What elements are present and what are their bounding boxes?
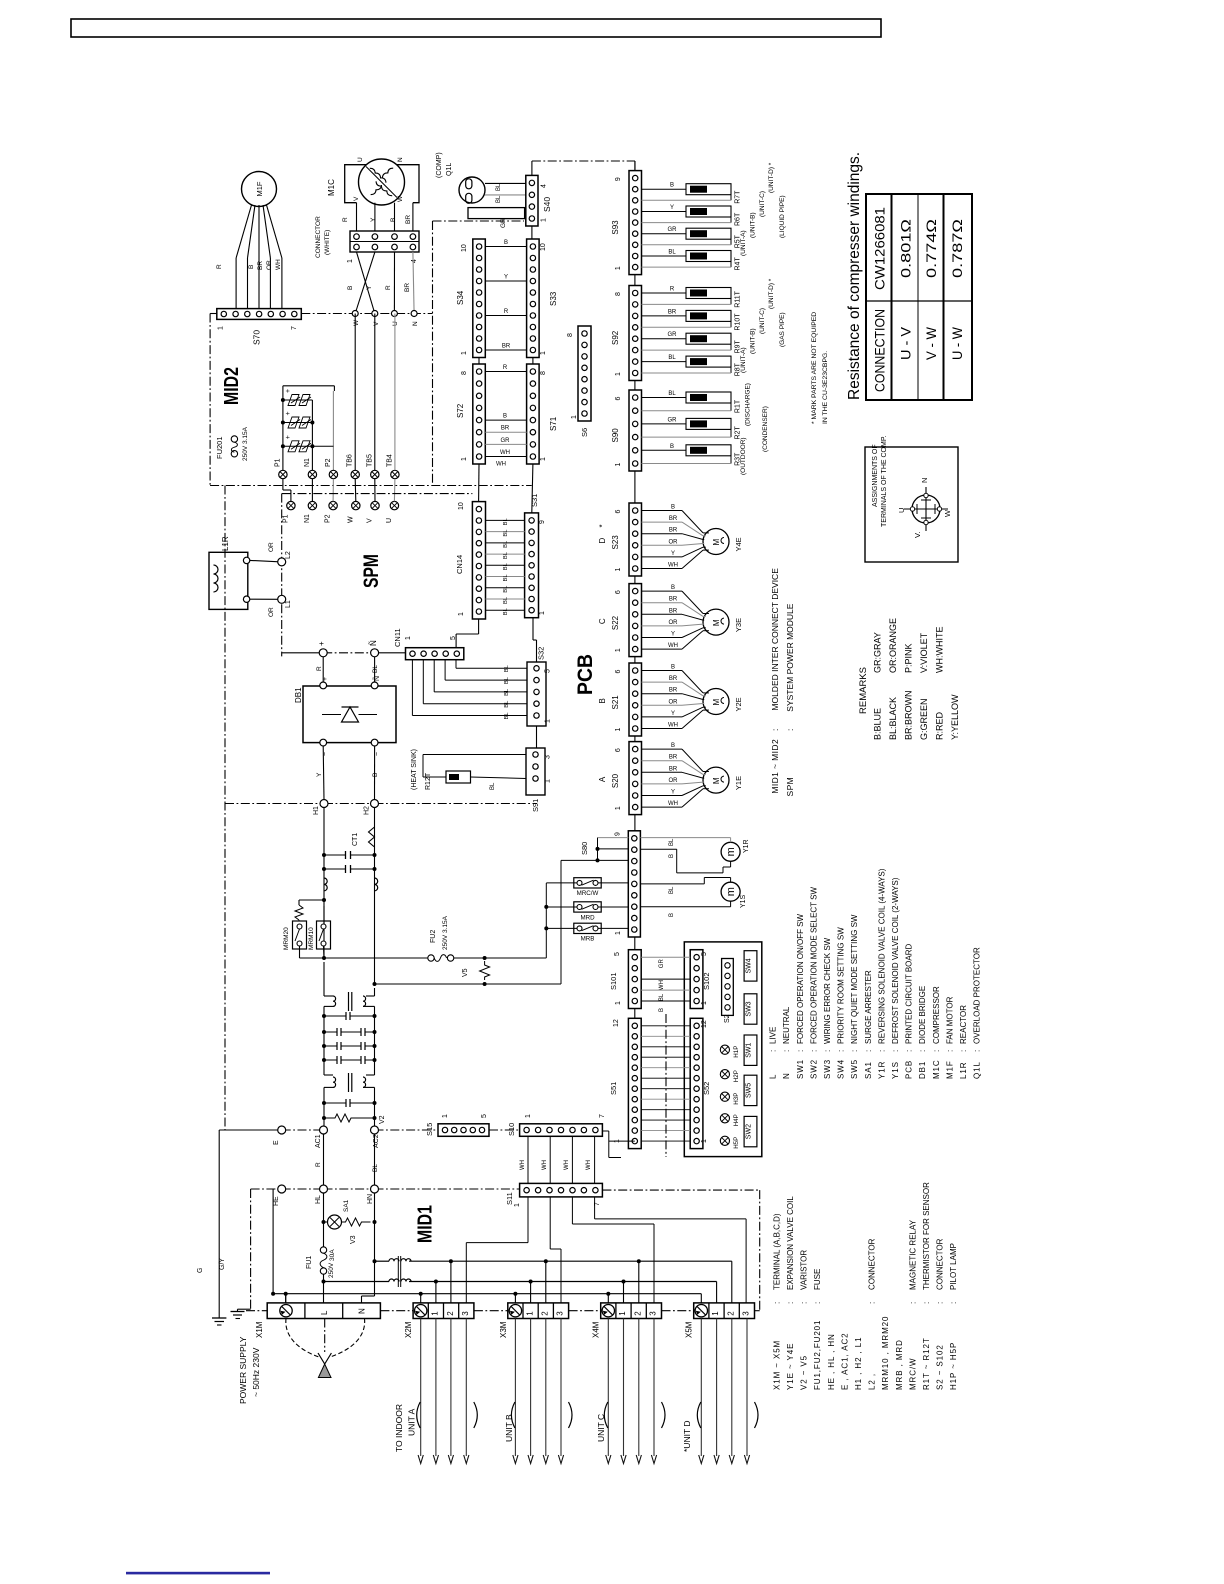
svg-text:(UNIT-B): (UNIT-B) [750,328,757,354]
connector S33 [527,239,540,358]
svg-text:R1T ~ R12T: R1T ~ R12T [922,1337,931,1390]
svg-text:1: 1 [514,1203,521,1207]
drops to indoor unit D [700,1319,702,1457]
svg-text:(UNIT-D) *: (UNIT-D) * [768,278,775,309]
svg-text:OR: OR [669,620,679,626]
crossover wires connector to bus [357,252,375,314]
svg-text:OR: OR [266,260,273,270]
svg-text:BL: BL [503,585,509,593]
svg-text:10: 10 [540,243,547,251]
svg-text:S10: S10 [507,1123,516,1136]
svg-text:A: A [598,776,607,782]
svg-text:L1R: L1R [959,1062,968,1079]
drops to indoor unit A [420,1319,422,1457]
svg-text:S92: S92 [611,330,620,345]
svg-text:H1 , H2 , L1: H1 , H2 , L1 [854,1337,863,1391]
svg-text:3: 3 [649,1311,658,1316]
svg-text:N: N [412,321,419,326]
svg-text:Y1R: Y1R [743,839,750,853]
svg-text::: : [786,1302,795,1304]
svg-text:(OUTDOOR): (OUTDOOR) [740,437,747,475]
svg-text:HL: HL [315,1195,322,1204]
svg-text:Y1E ~ Y4E: Y1E ~ Y4E [786,1343,795,1390]
svg-text:BR: BR [669,766,678,772]
svg-text:N: N [397,157,404,162]
svg-text:WH: WH [496,462,506,468]
svg-text:~ 50Hz 230V: ~ 50Hz 230V [251,1347,261,1397]
svg-text:BL: BL [503,551,509,559]
svg-text:EXPANSION VALVE COIL: EXPANSION VALVE COIL [786,1196,795,1290]
svg-text:ASSIGNMENTS OF: ASSIGNMENTS OF [872,444,879,507]
svg-text:+: + [285,389,292,393]
svg-text:1: 1 [711,1311,720,1316]
resistance table [866,194,972,400]
svg-text:WH: WH [659,980,665,990]
svg-text:BL: BL [669,886,675,894]
svg-text:U - V: U - V [899,327,914,360]
svg-text:Y: Y [504,275,508,281]
control PCB box [684,942,762,1157]
svg-text:R7T: R7T [735,190,742,204]
sensor chain wires [634,161,636,171]
svg-text:1: 1 [615,728,622,732]
svg-text:U: U [897,508,906,513]
power supply cable + arrow [286,1319,319,1358]
svg-text:1: 1 [458,612,465,616]
interconnect wires across boundary [282,479,284,490]
svg-text:BL: BL [504,664,510,672]
svg-text:BL: BL [496,183,502,191]
svg-text:Y: Y [671,551,675,557]
svg-text::: : [959,1050,968,1052]
ground symbol 1 [212,1317,226,1319]
bus junction nodes W V U N [352,311,358,317]
wires M1F to S70 [236,205,251,258]
svg-text:WH: WH [275,259,282,270]
svg-text:BL: BL [504,688,510,696]
svg-text::: : [949,1302,958,1304]
svg-text:U: U [392,321,399,326]
X1M feeder wires [285,1294,287,1303]
svg-text:BR: BR [669,597,678,603]
svg-text:30A: 30A [329,1249,336,1261]
pilot lamps H1P-H5P [720,1045,729,1054]
svg-text:Y: Y [671,632,675,638]
svg-text:1: 1 [540,351,547,355]
svg-text:B: B [503,414,507,420]
svg-text:OR: OR [669,539,679,545]
svg-text:V3: V3 [350,1235,357,1244]
svg-text:W: W [397,195,404,202]
svg-text:E: E [273,1140,280,1145]
svg-text:Q1L: Q1L [446,163,453,176]
svg-text:TERMINALS OF THE COMP.: TERMINALS OF THE COMP. [881,435,888,527]
svg-text:WH:WHITE: WH:WHITE [934,627,944,674]
svg-text:SW5: SW5 [746,1083,753,1098]
vertical mains wires below H1 H2 [323,808,325,959]
svg-text:B: B [659,1008,665,1012]
svg-text:M: M [712,777,721,784]
svg-text:1: 1 [431,1311,440,1316]
connector S32 [527,662,546,726]
svg-text:MID2: MID2 [221,367,243,405]
svg-text:OR: OR [268,607,275,617]
svg-text:Resistance of compresser windi: Resistance of compresser windings. [846,152,863,400]
svg-text:1: 1 [540,457,547,461]
svg-text:UNIT A: UNIT A [407,1408,417,1436]
svg-text:1: 1 [618,1311,627,1316]
compass terminal diagram [912,495,940,523]
svg-text:FU201: FU201 [215,436,224,459]
PCB left boundary vertical [224,486,226,1131]
wires S72-S71 [485,371,526,373]
svg-text:SW1: SW1 [746,1043,753,1058]
svg-text:R1T: R1T [735,399,742,413]
svg-text:5: 5 [614,952,621,956]
svg-text:BL: BL [668,250,676,256]
svg-text:MRB , MRD: MRB , MRD [895,1339,904,1390]
svg-text:BL: BL [669,838,675,846]
svg-text:BR: BR [502,344,511,350]
svg-text::: : [782,1050,791,1052]
svg-text:B: B [504,240,508,246]
svg-text:1: 1 [615,1001,622,1005]
svg-text:(GAS PIPE): (GAS PIPE) [779,312,786,347]
svg-text::: : [769,1050,778,1052]
svg-text:1: 1 [539,611,546,615]
svg-text:B: B [671,505,675,511]
fan connector S20 + motor Y1E [629,742,642,815]
svg-text:MID1: MID1 [415,1205,437,1243]
common mode choke lower [324,1074,333,1076]
svg-text:BL: BL [490,782,496,790]
svg-text:H2: H2 [364,806,371,815]
svg-text:WH: WH [542,1160,548,1170]
svg-text:FUSE: FUSE [813,1269,822,1290]
svg-text:B: B [670,444,674,450]
svg-text:BL: BL [659,993,665,1001]
svg-text:WH: WH [520,1160,526,1170]
svg-text:B: B [248,265,255,269]
dash-dot to ground 2 [250,1189,252,1309]
svg-text:P:PINK: P:PINK [903,643,913,673]
svg-text:5: 5 [701,952,708,956]
svg-text:PRINTED CIRCUIT BOARD: PRINTED CIRCUIT BOARD [905,943,914,1044]
svg-text:R:RED: R:RED [934,711,944,740]
svg-text:+: + [285,435,292,439]
svg-text:BL: BL [503,562,509,570]
svg-text:L: L [769,1074,778,1079]
svg-text:3: 3 [742,1311,751,1316]
svg-text:6: 6 [615,748,622,752]
svg-text:SW3: SW3 [823,1059,832,1079]
connector S71 [527,364,540,464]
svg-text:1: 1 [545,779,552,783]
svg-text:3: 3 [461,1311,470,1316]
svg-text:0.774Ω: 0.774Ω [924,219,939,278]
svg-text:UNIT C: UNIT C [596,1414,606,1442]
svg-text:1: 1 [615,568,622,572]
svg-text:250V: 250V [328,1262,335,1278]
svg-text:2: 2 [633,1311,642,1316]
svg-text:NIGHT QUIET MODE SETTING SW: NIGHT QUIET MODE SETTING SW [850,914,859,1044]
svg-text:1: 1 [701,1001,708,1005]
connector S90 with thermistors R1T-R3T [629,390,642,471]
svg-text:1: 1 [525,1114,532,1118]
connector CN14 [472,502,485,619]
wires Q1L to S40 [485,182,526,184]
svg-text::: : [785,729,795,731]
svg-text:S71: S71 [549,416,558,431]
svg-text:V:VIOLET: V:VIOLET [919,632,929,673]
svg-text:N: N [920,478,929,483]
svg-text:BR: BR [668,309,677,315]
svg-text:S52: S52 [702,1082,711,1095]
PCB boundary dashed vertical [665,1014,667,1157]
svg-text:H2P: H2P [733,1070,740,1082]
svg-text:PRIORITY ROOM SETTING SW: PRIORITY ROOM SETTING SW [837,927,846,1044]
wires below AC nodes [323,1134,325,1185]
top title bar [71,19,881,37]
svg-text:8: 8 [567,333,574,337]
svg-text:V.: V. [913,532,922,538]
wires bus to DB1 [322,657,324,682]
svg-text:V: V [353,196,360,201]
svg-text:R12T: R12T [425,772,432,790]
svg-text:CONNECTOR: CONNECTOR [936,1238,945,1290]
svg-text:S6: S6 [580,428,589,437]
svg-text:(COMP): (COMP) [436,152,443,178]
svg-text:GR: GR [500,218,507,228]
svg-text:MRB: MRB [581,936,595,943]
svg-text:CT1: CT1 [352,833,359,846]
svg-text:P2: P2 [325,514,332,523]
svg-text:OR:ORANGE: OR:ORANGE [888,618,898,673]
svg-text:DEFROST SOLENOID VALVE COIL (2: DEFROST SOLENOID VALVE COIL (2-WAYS) [891,877,900,1044]
compressor M1C motor [359,159,405,205]
svg-text:S40: S40 [542,197,552,212]
svg-text:BL: BL [504,712,510,720]
svg-text:BL: BL [668,355,676,361]
svg-text:MRM10: MRM10 [308,927,315,950]
protective earth bus [273,1293,701,1295]
connector S70 [217,309,301,320]
svg-text:(UNIT-C): (UNIT-C) [759,191,766,217]
H1 H2 nodes [320,800,328,808]
svg-text:TB5: TB5 [366,454,373,467]
svg-text:R6T: R6T [735,212,742,226]
svg-text:R: R [315,1162,322,1167]
terminal block X2M [413,1303,474,1319]
svg-text:m: m [725,887,737,896]
svg-text:0.787Ω: 0.787Ω [950,219,965,278]
svg-text:H4P: H4P [733,1114,740,1126]
svg-text::: : [868,1302,877,1304]
varistor V3 [342,1218,371,1226]
svg-text:Q1L: Q1L [973,1061,982,1079]
svg-text::: : [945,1050,954,1052]
connector S10 [520,1124,603,1137]
svg-text:BR: BR [501,426,510,432]
svg-text:Y: Y [671,711,675,717]
svg-text:P1: P1 [274,458,281,467]
wires M1C to connector [356,203,358,231]
svg-text:(LIQUID PIPE): (LIQUID PIPE) [779,195,786,238]
svg-text:U: U [386,518,393,523]
svg-text:S91: S91 [531,799,540,812]
svg-text:(UNIT-C): (UNIT-C) [759,308,766,334]
svg-text:M1C: M1C [327,179,336,196]
svg-text:THERMISTOR FOR SENSOR: THERMISTOR FOR SENSOR [922,1182,931,1290]
svg-text:1: 1 [615,463,622,467]
svg-text:* MARK PARTS ARE NOT EQUIPED: * MARK PARTS ARE NOT EQUIPED [811,312,818,424]
svg-text:12: 12 [613,1019,620,1027]
svg-text:MRM10 , MRM20: MRM10 , MRM20 [881,1316,890,1390]
ground strap GR to S40 [468,208,525,219]
svg-text:N1: N1 [304,514,311,523]
svg-text:1: 1 [405,636,412,640]
svg-text:V: V [367,518,374,523]
wire S31 to S32 [532,618,534,640]
svg-text:HE , HL , HN: HE , HL , HN [827,1333,836,1390]
connector S6 (spare) [578,326,591,421]
svg-text:SPM: SPM [785,777,795,797]
svg-text:TERMINAL (A,B,C,D): TERMINAL (A,B,C,D) [772,1213,781,1290]
svg-text:CN14: CN14 [455,555,464,574]
svg-text:2: 2 [726,1311,735,1316]
common mode choke upper [323,962,325,996]
svg-text:+: + [317,641,326,646]
svg-text:S102: S102 [702,972,711,990]
wires CN14-S31 with BL labels [486,519,525,521]
wires S80 to coils [640,837,730,839]
svg-text:1: 1 [615,806,622,810]
svg-text:S2: S2 [724,1014,731,1023]
S11 wires to unit terminals [527,1197,529,1243]
connector S52 [690,1018,703,1148]
SPM boundary [282,493,473,495]
svg-text:+: + [285,411,292,415]
svg-text:S33: S33 [549,291,558,306]
svg-text:S51: S51 [609,1082,618,1095]
svg-text:FORCED OPERATION MODE SELECT S: FORCED OPERATION MODE SELECT SW [809,886,818,1044]
svg-text:W: W [347,516,354,523]
svg-text:S72: S72 [456,403,465,418]
S80 left feed wires [598,837,629,839]
svg-text:S23: S23 [611,535,620,550]
svg-text:REMARKS: REMARKS [858,667,869,714]
svg-text:MAGNETIC RELAY: MAGNETIC RELAY [908,1219,917,1290]
svg-text:VARISTOR: VARISTOR [800,1250,809,1290]
svg-text:Y:YELLOW: Y:YELLOW [950,694,960,740]
wire CN14 pin1 to CN11 pin5 [478,619,480,634]
connector S51 [628,1018,641,1148]
svg-text:4: 4 [541,184,548,188]
connector S40 [526,175,538,226]
svg-text:M: M [712,619,721,626]
svg-text:H5P: H5P [733,1137,740,1149]
svg-text:(CONDENSER): (CONDENSER) [762,406,769,452]
svg-text:P2: P2 [325,458,332,467]
svg-text:C: C [598,618,607,624]
svg-text:1: 1 [461,457,468,461]
svg-text:BR: BR [669,608,678,614]
connector (WHITE) 2x4 [350,231,419,252]
svg-text:1: 1 [615,372,622,376]
svg-text:SW2: SW2 [809,1059,818,1079]
DIP switch boxes [744,951,757,981]
wire HN down [374,1193,376,1296]
svg-text:GR:GRAY: GR:GRAY [872,632,882,673]
wires S34-S33 [485,246,526,248]
svg-text:1: 1 [615,931,622,935]
svg-text:H1P ~ H5P: H1P ~ H5P [949,1342,958,1390]
defrost valve coil Y1S [721,882,740,901]
svg-text::: : [772,1302,781,1304]
drops to indoor unit B [514,1319,516,1457]
svg-text:HN: HN [367,1194,374,1204]
svg-text:3: 3 [545,755,552,759]
svg-text::: : [905,1050,914,1052]
chain wires between fan connectors [634,576,636,584]
connector S91 [526,748,545,795]
svg-text:BL: BL [503,607,509,615]
svg-text:Y: Y [670,205,674,211]
svg-text:R: R [216,264,223,269]
connector S72 [473,364,486,464]
relay MRM10 [317,921,331,949]
diode bridge DB1 [303,686,396,743]
relay contacts MRC/W MRD MRB [545,883,547,958]
svg-text:*: * [598,524,607,527]
svg-text::: : [809,1050,818,1052]
svg-text:Y2E: Y2E [734,697,743,711]
svg-text:Y1R: Y1R [877,1061,886,1079]
svg-text:8: 8 [615,292,622,296]
svg-text:9: 9 [539,520,546,524]
rail branches to terminals [449,1259,453,1263]
svg-text::: : [850,1050,859,1052]
svg-text:Y: Y [671,790,675,796]
svg-text:TB6: TB6 [347,454,354,467]
svg-text:1: 1 [615,266,622,270]
svg-text:S2 ~ S102: S2 ~ S102 [936,1344,945,1390]
relay MRM20 [293,921,307,949]
svg-text:N: N [782,1072,791,1079]
svg-text:FU1: FU1 [306,1256,313,1269]
svg-text:B: B [671,665,675,671]
svg-text:DB1: DB1 [918,1061,927,1079]
svg-text:MID1 ~ MID2: MID1 ~ MID2 [770,739,780,794]
HE drop to PE bus [272,1189,274,1294]
svg-text:BL: BL [503,574,509,582]
svg-text:TO INDOOR: TO INDOOR [394,1404,404,1452]
svg-text:SYSTEM POWER MODULE: SYSTEM POWER MODULE [785,603,795,711]
svg-text:X3M: X3M [499,1321,508,1338]
svg-text:SW4: SW4 [746,958,753,973]
svg-text:SW3: SW3 [746,1001,753,1016]
svg-text:Y: Y [370,217,377,222]
svg-text:G/Y: G/Y [219,1258,226,1270]
connector S92 with thermistors R8T-R11T [629,286,642,381]
MID2 lower terminals row (P1 N1 P2 TB6 TB5 TB4) [279,470,287,478]
svg-text::: : [864,1050,873,1052]
svg-text:H1: H1 [313,806,320,815]
svg-text::: : [918,1050,927,1052]
capacitor + varistor V2 [322,1101,326,1105]
svg-text:GR: GR [668,417,678,423]
svg-text:6: 6 [615,590,622,594]
